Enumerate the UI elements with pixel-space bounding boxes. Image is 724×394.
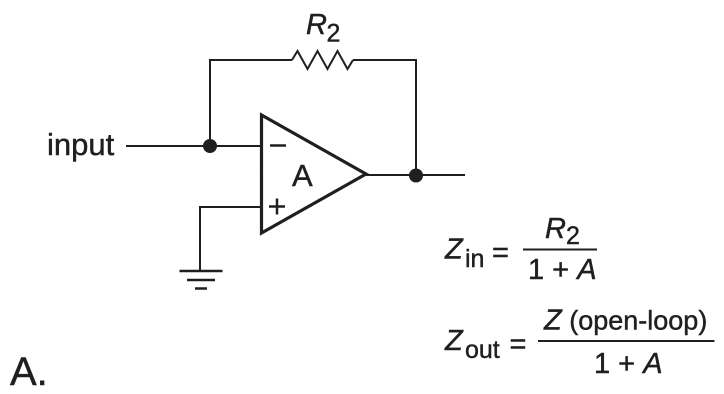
resistor R2 <box>292 51 353 69</box>
svg-text:=: = <box>492 237 509 269</box>
svg-text:1 + A: 1 + A <box>528 254 597 286</box>
ground <box>180 271 223 289</box>
svg-text:A: A <box>292 158 313 193</box>
svg-text:Z: Z <box>444 325 464 357</box>
svg-text:1 + A: 1 + A <box>594 348 663 380</box>
wire input horizontal <box>126 145 261 147</box>
op-amp A triangle <box>262 115 367 233</box>
svg-text:=: = <box>510 329 527 361</box>
node junction output <box>409 169 423 183</box>
svg-text:out: out <box>465 336 500 364</box>
node junction input <box>203 139 217 153</box>
wire feedback top right <box>353 59 417 61</box>
formula Zout: fraction bar <box>538 340 715 342</box>
op-amp plus sign <box>269 199 285 215</box>
svg-text:A.: A. <box>10 350 48 394</box>
svg-text:input: input <box>47 127 115 162</box>
wire feedback left vertical <box>209 60 211 146</box>
svg-text:Z (open-loop): Z (open-loop) <box>543 305 707 337</box>
wire output <box>366 174 465 176</box>
svg-text:in: in <box>465 245 484 273</box>
svg-text:R: R <box>306 9 327 41</box>
wire feedback top left <box>209 59 292 61</box>
svg-text:2: 2 <box>566 222 580 250</box>
svg-text:R: R <box>545 213 566 245</box>
svg-text:2: 2 <box>327 20 341 48</box>
wire ground vertical <box>199 206 201 271</box>
wire noninverting input <box>200 206 261 208</box>
wire feedback right vertical <box>415 59 417 176</box>
svg-text:Z: Z <box>444 234 464 266</box>
op-amp minus sign <box>270 144 286 147</box>
formula Zin: fraction bar <box>523 249 597 251</box>
